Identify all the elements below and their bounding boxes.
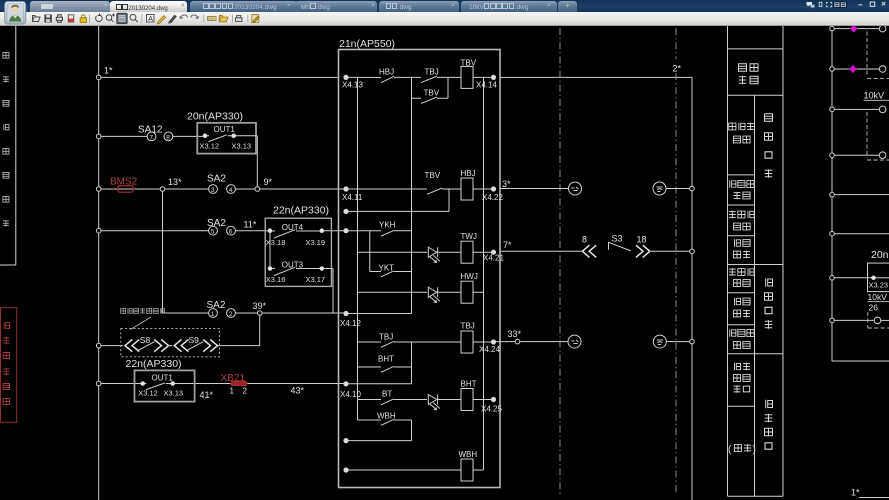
- wire HWJ row: [358, 291, 428, 293]
- wire OUT4 to OUT3 inside box: [269, 233, 271, 267]
- svg-text:1*: 1*: [104, 66, 113, 76]
- plug S8: [125, 340, 169, 352]
- svg-text:TBV: TBV: [425, 171, 441, 180]
- wire center bus: [411, 77, 413, 440]
- svg-text:HBJ: HBJ: [461, 169, 476, 178]
- led BT row: [428, 395, 440, 410]
- wire SA2-56 row: [101, 230, 270, 232]
- svg-text:22n(AP330): 22n(AP330): [126, 358, 182, 370]
- lamp lower left: [568, 335, 581, 348]
- node 13*: [160, 187, 165, 192]
- lamp lower right: [653, 335, 666, 348]
- svg-text:X3.13: X3.13: [232, 142, 252, 151]
- node 33* junction: [515, 339, 520, 344]
- node left bus S8: [96, 343, 101, 348]
- grip point row1 (magenta): [850, 25, 858, 33]
- svg-text:TBV: TBV: [424, 89, 440, 98]
- function table grid: [728, 26, 784, 496]
- terminal X4.24: [491, 340, 495, 344]
- svg-text:X3.16: X3.16: [266, 275, 286, 284]
- table cell 计算机跳闸: [729, 268, 754, 286]
- terminal aux below X4.11: [344, 209, 348, 213]
- wire row1 right to return bus: [500, 76, 692, 78]
- svg-text:BHT: BHT: [461, 380, 477, 389]
- svg-text:11*: 11*: [244, 219, 257, 229]
- led HWJ row: [428, 287, 440, 302]
- wire row1 left: [101, 76, 339, 78]
- wire lamp row lower: [496, 341, 692, 343]
- svg-text:BT: BT: [382, 389, 392, 398]
- cabinet boundary dashed mid: [867, 112, 889, 160]
- cabinet boundary dashed upper: [867, 32, 889, 79]
- svg-text:X4.12: X4.12: [340, 319, 361, 328]
- label 引自分段隔离柜: [121, 308, 165, 313]
- table cell 控制屏合闸: [730, 180, 754, 199]
- table cell 控制屏跳闸: [730, 329, 754, 348]
- wire left bus: [98, 26, 100, 500]
- terminal X4.12: [344, 311, 348, 315]
- svg-text:X4.22: X4.22: [482, 193, 503, 202]
- svg-text:X4.25: X4.25: [481, 405, 502, 414]
- svg-text:TWJ: TWJ: [461, 232, 477, 241]
- wire aux row up to coil row: [348, 189, 449, 211]
- svg-text:41*: 41*: [200, 390, 214, 400]
- table cell 位置监视 2: [733, 298, 750, 318]
- svg-text:X4.24: X4.24: [479, 345, 500, 354]
- svg-text:S8: S8: [140, 335, 151, 345]
- node feeder row1: [830, 26, 835, 31]
- node feeder row3: [830, 107, 835, 112]
- boundary line (dash-dot) left: [559, 28, 561, 494]
- terminal aux row 470: [344, 468, 348, 472]
- terminal X4.11: [344, 187, 348, 191]
- terminal socket row1: [879, 25, 886, 32]
- terminal X4.22: [491, 187, 495, 191]
- switch SA12: [147, 132, 173, 141]
- terminal socket row2: [879, 66, 886, 73]
- terminal X4.14: [491, 75, 495, 79]
- wire feeder row5: [834, 194, 889, 196]
- toolbar icons: [33, 13, 260, 24]
- svg-text:2: 2: [243, 387, 248, 396]
- node feeder row8: [830, 318, 835, 323]
- leader line from label to plug box: [131, 317, 152, 330]
- avatar button: [5, 2, 26, 25]
- wire BMS2 row: [101, 188, 344, 190]
- node feeder row5: [830, 192, 835, 197]
- table col 保护出口: [765, 400, 773, 449]
- wire X4.12 row: [348, 313, 411, 315]
- svg-text:OUT1: OUT1: [214, 125, 236, 134]
- wire feeder row2: [834, 68, 879, 70]
- svg-text:13*: 13*: [168, 177, 182, 187]
- terminal X3.23: [872, 276, 876, 280]
- svg-text:WBH: WBH: [459, 450, 478, 459]
- svg-text:20n(: 20n(: [871, 249, 889, 261]
- terminal X4.21: [491, 250, 495, 254]
- wire S8 S9 row: [101, 345, 260, 347]
- svg-text:YKH: YKH: [379, 221, 396, 230]
- left margin label 分级交流电源回路: [3, 52, 9, 226]
- node 9*: [255, 187, 260, 192]
- wire OUT4 out to YKH terminal: [324, 230, 344, 232]
- svg-text:OUT1: OUT1: [152, 374, 174, 383]
- svg-text:TBJ: TBJ: [461, 322, 475, 331]
- svg-text:3: 3: [211, 187, 215, 194]
- svg-text:): ): [753, 445, 756, 456]
- document tabs: [30, 1, 110, 12]
- terminal YKH: [344, 229, 348, 233]
- wire feeder row4: [834, 154, 879, 156]
- svg-text:10kV: 10kV: [868, 292, 888, 302]
- terminal X4.25: [491, 397, 495, 401]
- wire inner left bus: [357, 77, 359, 420]
- terminal socket row8: [874, 317, 881, 324]
- lamp LD upper right: [653, 182, 666, 195]
- header icons overlay: [0, 0, 889, 26]
- svg-text:22n(AP330): 22n(AP330): [273, 205, 329, 217]
- node return bus upper lamp row: [690, 186, 695, 191]
- svg-text:3*: 3*: [502, 179, 511, 189]
- svg-text:8: 8: [166, 134, 170, 141]
- svg-text:1*: 1*: [851, 488, 860, 498]
- node left bus SA2-56: [96, 228, 101, 233]
- svg-text:SA2: SA2: [207, 174, 226, 185]
- sheet border left: [0, 26, 16, 265]
- svg-text:HWJ: HWJ: [461, 272, 478, 281]
- grip point row2 (magenta): [849, 65, 857, 73]
- cabinet boundary dashed lower: [868, 312, 889, 328]
- wire feeder row3: [834, 108, 879, 110]
- svg-text:4: 4: [229, 187, 233, 194]
- svg-text:7*: 7*: [503, 240, 512, 250]
- svg-text:21n(AP550): 21n(AP550): [339, 38, 395, 50]
- svg-text:1: 1: [211, 311, 215, 318]
- node left bus SA12: [96, 134, 101, 139]
- svg-text:X4.10: X4.10: [340, 390, 361, 399]
- switch S3 plug contacts: [582, 245, 649, 257]
- wire SA2-12 39* row: [163, 312, 344, 314]
- feeder bus far right: [832, 26, 889, 361]
- table cell 位置监视: [733, 239, 750, 258]
- svg-text:1: 1: [230, 387, 235, 396]
- node left bus row1: [96, 75, 101, 80]
- svg-text:26: 26: [869, 303, 879, 313]
- svg-text:18: 18: [637, 235, 647, 245]
- svg-text:43*: 43*: [291, 386, 305, 396]
- wire YKH to YKT branch: [369, 231, 371, 272]
- node return bus lower lamp row: [690, 339, 695, 344]
- svg-text:X3.12: X3.12: [138, 388, 158, 397]
- boundary line (dash-dot) right: [675, 28, 677, 494]
- svg-text:BHT: BHT: [378, 355, 394, 364]
- terminal socket row4: [879, 152, 886, 159]
- table cell 备自投合闸: [729, 123, 754, 143]
- wire return bus right: [691, 77, 693, 500]
- node left bus OUT1: [96, 381, 101, 386]
- wire feeder row6: [834, 233, 889, 235]
- wire vertical 13* down: [162, 191, 164, 313]
- svg-text:39*: 39*: [253, 301, 267, 311]
- node return bus S3 row: [690, 249, 695, 254]
- svg-text:HBJ: HBJ: [379, 67, 394, 76]
- node feeder row4: [830, 153, 835, 158]
- switch S3 blade: [609, 242, 632, 251]
- svg-text:S3: S3: [612, 234, 623, 244]
- wire lamp row upper: [500, 188, 692, 190]
- table col 跳闸回路: [765, 278, 773, 328]
- svg-text:X3.13: X3.13: [164, 388, 184, 397]
- terminal X4.10: [344, 382, 348, 386]
- svg-text:20n(AP330): 20n(AP330): [187, 111, 243, 123]
- svg-text:TBJ: TBJ: [425, 67, 439, 76]
- svg-text:X3.23: X3.23: [869, 281, 889, 290]
- wire S3 row: [500, 250, 692, 252]
- node 39*: [257, 311, 262, 316]
- terminal X4.13: [344, 75, 348, 79]
- wire OUT1 row to X4.10: [101, 383, 344, 385]
- node feeder row7: [830, 276, 835, 281]
- wire SA12 row: [101, 135, 203, 137]
- plug S9: [174, 340, 217, 352]
- table col 合闸回路: [765, 114, 773, 178]
- svg-text:S9: S9: [189, 335, 200, 345]
- wire 39* node down to S9: [259, 315, 261, 346]
- terminal aux row 440: [344, 438, 348, 442]
- svg-text:X4.14: X4.14: [476, 80, 497, 89]
- isolator plug box S8 S9 (dashed): [121, 329, 220, 357]
- svg-text:X4.21: X4.21: [483, 254, 504, 263]
- AC current circuit red box 交流电流回路: [1, 308, 17, 423]
- table cell 计算机合闸: [729, 211, 754, 230]
- led TWJ row: [428, 247, 440, 262]
- svg-text:X3.12: X3.12: [200, 142, 220, 151]
- svg-text:A: A: [148, 16, 153, 23]
- wire feeder row1: [834, 28, 879, 30]
- wire inner right bus: [483, 77, 485, 470]
- svg-text:X4.11: X4.11: [342, 193, 363, 202]
- lamp HD upper left: [569, 182, 582, 195]
- node feeder row2: [830, 67, 835, 72]
- wire X4.10 row: [348, 383, 411, 385]
- svg-text:X3.19: X3.19: [306, 238, 326, 247]
- svg-text:9*: 9*: [264, 177, 273, 187]
- svg-text:33*: 33*: [508, 329, 522, 339]
- svg-text:5: 5: [211, 229, 215, 236]
- svg-text:8: 8: [582, 235, 587, 245]
- svg-text:X3.18: X3.18: [266, 238, 286, 247]
- svg-text:TBJ: TBJ: [379, 333, 393, 342]
- terminal socket row3: [879, 106, 886, 113]
- titlebar right icons: [807, 2, 848, 9]
- node feeder row6: [830, 231, 835, 236]
- wire feeder row8: [834, 319, 873, 321]
- table cell 操作电源: [739, 64, 759, 85]
- svg-text:2: 2: [229, 311, 233, 318]
- table cell 保护跳闸出口: [733, 363, 750, 393]
- svg-text:WBH: WBH: [377, 411, 396, 420]
- svg-text:X3.17: X3.17: [306, 275, 326, 284]
- node left bus BMS2: [96, 187, 101, 192]
- svg-text:10kV: 10kV: [864, 91, 885, 101]
- svg-text:6: 6: [229, 229, 233, 236]
- wire X3.13 down to 9*: [256, 136, 258, 187]
- wire TWJ row: [358, 251, 428, 253]
- svg-text:7: 7: [149, 134, 153, 141]
- svg-text:2*: 2*: [673, 64, 682, 74]
- wire OUT3 out and down to 39* row: [324, 269, 334, 314]
- wire feeder row7: [834, 277, 871, 279]
- svg-text:X4.13: X4.13: [342, 81, 363, 90]
